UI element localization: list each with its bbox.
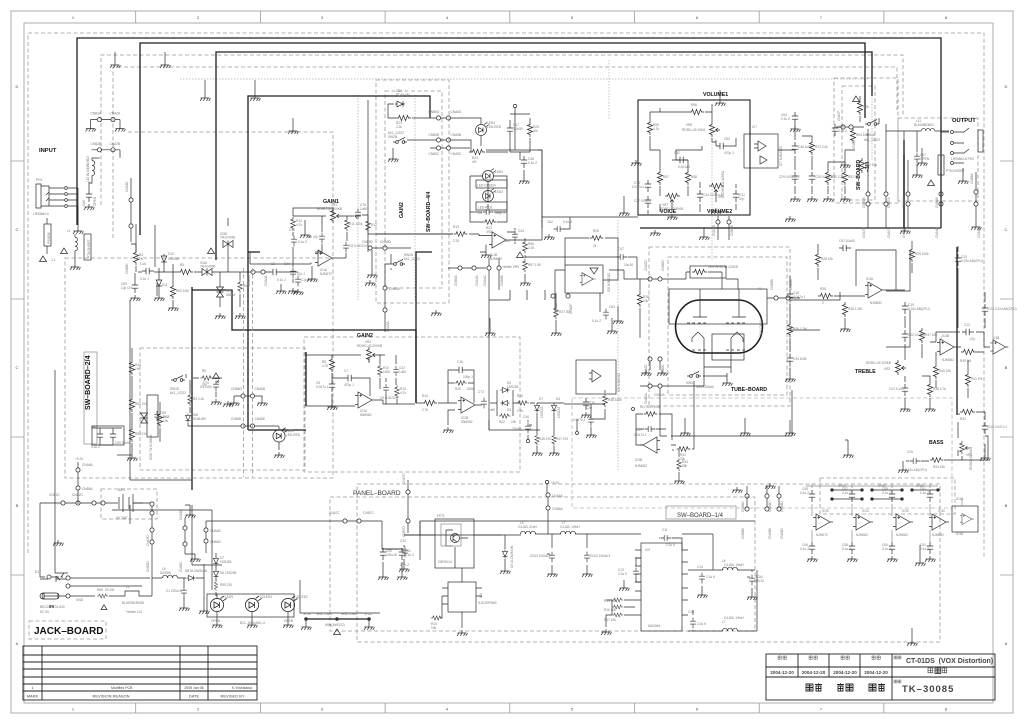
svg-text:RD18-6M: RD18-6M [192, 417, 206, 421]
svg-text:R62 1%: R62 1% [135, 402, 147, 406]
svg-text:4V_BAT: 4V_BAT [116, 516, 128, 520]
svg-text:0.1u Z: 0.1u Z [920, 491, 929, 495]
svg-text:0.1u Z: 0.1u Z [592, 319, 601, 323]
svg-text:RD18-6M: RD18-6M [396, 93, 410, 97]
svg-text:IC3B: IC3B [635, 458, 642, 462]
svg-text:C8 0.0022u F: C8 0.0022u F [349, 244, 368, 248]
svg-text:CNA6D: CNA6D [451, 110, 463, 114]
svg-text:SW–BOARD–2/4: SW–BOARD–2/4 [85, 355, 92, 410]
svg-text:CNA4B: CNA4B [935, 227, 939, 238]
svg-text:IC8 NJM2115: IC8 NJM2115 [617, 373, 621, 392]
svg-text:R29 100k: R29 100k [915, 252, 929, 256]
svg-text:IC4: IC4 [479, 593, 483, 598]
svg-text:D3: D3 [507, 408, 511, 412]
svg-text:CNB7B: CNB7B [862, 197, 866, 208]
svg-text:ZC04 100u6.3: ZC04 100u6.3 [590, 554, 610, 558]
svg-text:R38 4.7k: R38 4.7k [933, 387, 946, 391]
svg-text:OUTPUT: OUTPUT [952, 118, 976, 124]
svg-text:CNB2C: CNB2C [49, 493, 61, 497]
svg-text:C1 220u16: C1 220u16 [166, 589, 182, 593]
svg-text:CNB4B: CNB4B [935, 197, 939, 208]
svg-text:1u50: 1u50 [503, 239, 510, 243]
svg-text:IC7 NJM2120: IC7 NJM2120 [779, 146, 783, 166]
svg-text:1SS255: 1SS255 [507, 385, 519, 389]
svg-text:R67 1.5K: R67 1.5K [528, 263, 542, 267]
svg-text:VR3: VR3 [884, 367, 890, 371]
svg-text:CNB6C: CNB6C [125, 262, 129, 274]
svg-text:12p CH: 12p CH [121, 286, 133, 290]
svg-text:4%: 4% [533, 129, 538, 133]
svg-text:C47: C47 [618, 247, 624, 251]
svg-text:CNA6D: CNA6D [780, 527, 784, 539]
svg-text:R5: R5 [180, 263, 184, 267]
svg-text:R65: R65 [97, 588, 103, 592]
svg-text:OPEN: OPEN [920, 157, 930, 161]
svg-text:0.1u Z: 0.1u Z [800, 547, 809, 551]
svg-text:RD901-40 100KA: RD901-40 100KA [721, 170, 725, 196]
svg-text:VOLUME2: VOLUME2 [707, 209, 732, 215]
svg-text:C4-82L 22uH: C4-82L 22uH [518, 525, 538, 529]
svg-text:C47 10u50: C47 10u50 [839, 239, 855, 243]
svg-text:RD901-40 50KB: RD901-40 50KB [969, 447, 973, 470]
svg-text:NJM072: NJM072 [490, 257, 502, 261]
svg-text:CNA6B: CNA6B [255, 387, 266, 391]
svg-text:D1: D1 [35, 570, 39, 574]
svg-text:JP3B: JP3B [916, 484, 924, 488]
svg-text:PS9608: PS9608 [47, 232, 51, 244]
svg-text:JACK–BOARD: JACK–BOARD [34, 626, 103, 637]
svg-text:D: D [1005, 84, 1008, 89]
svg-text:0.1u Z: 0.1u Z [563, 220, 572, 224]
svg-text:PTN-SHORT: PTN-SHORT [946, 169, 965, 173]
svg-text:LR90664-6 PH2: LR90664-6 PH2 [951, 157, 974, 161]
svg-text:CNB4B: CNB4B [902, 197, 906, 208]
svg-text:0.047u J: 0.047u J [793, 295, 806, 299]
svg-text:CNA6C: CNA6C [125, 180, 129, 192]
svg-text:*delete L12: *delete L12 [126, 610, 142, 614]
svg-text:R56: R56 [691, 103, 697, 107]
svg-text:A: A [1005, 641, 1008, 646]
svg-text:0.1u Z: 0.1u Z [528, 161, 537, 165]
svg-text:R44: R44 [422, 394, 428, 398]
svg-text:CNA0D: CNA0D [644, 259, 648, 271]
svg-text:CNA7C: CNA7C [329, 511, 341, 515]
svg-text:0.1u J: 0.1u J [140, 277, 149, 281]
svg-text:59k: 59k [682, 464, 688, 468]
svg-text:OPEN: OPEN [284, 619, 294, 623]
svg-text:100u16: 100u16 [386, 553, 397, 557]
svg-text:PH1: PH1 [36, 178, 42, 182]
svg-text:D10: D10 [168, 252, 174, 256]
svg-text:CNB4B: CNB4B [730, 225, 734, 236]
svg-text:*delete VR9: *delete VR9 [502, 265, 519, 269]
svg-text:C36: C36 [589, 401, 595, 405]
svg-text:D7: D7 [539, 397, 543, 401]
svg-text:C50: C50 [724, 137, 730, 141]
svg-text:R26: R26 [863, 105, 869, 109]
svg-text:C43: C43 [518, 229, 524, 233]
svg-text:IC6 NJM2115: IC6 NJM2115 [607, 273, 611, 292]
svg-text:R30 1.2M: R30 1.2M [793, 327, 807, 331]
svg-text:C22: C22 [964, 323, 970, 327]
svg-text:R28 10k: R28 10k [821, 257, 833, 261]
svg-text:CNA0A: CNA0A [264, 274, 268, 286]
svg-text:R15 10k: R15 10k [604, 599, 616, 603]
svg-text:2004-12-20: 2004-12-20 [770, 670, 794, 675]
svg-text:INPUT: INPUT [39, 148, 57, 154]
svg-text:2.2u K: 2.2u K [706, 575, 716, 579]
svg-text:0.047u J: 0.047u J [632, 185, 645, 189]
svg-text:CNB2F: CNB2F [569, 303, 573, 314]
svg-text:GND: GND [76, 598, 84, 602]
svg-text:CNB6A: CNB6A [552, 507, 564, 511]
svg-text:CNB0B: CNB0B [500, 275, 504, 286]
svg-text:CNA7B: CNA7B [862, 227, 866, 238]
svg-text:R72 2.2k: R72 2.2k [815, 145, 828, 149]
svg-text:0.1u Z: 0.1u Z [838, 129, 847, 133]
svg-text:0.22u AB(CPU): 0.22u AB(CPU) [961, 259, 983, 263]
svg-text:C63: C63 [609, 305, 615, 309]
svg-text:MAX064: MAX064 [648, 624, 660, 628]
svg-text:CNA5B: CNA5B [451, 133, 462, 137]
svg-text:D11: D11 [162, 283, 168, 287]
svg-text:CNB7C: CNB7C [363, 511, 375, 515]
svg-text:CNB0E: CNB0E [231, 417, 242, 421]
svg-text:R39 1M: R39 1M [960, 359, 972, 363]
svg-text:33 1W: 33 1W [105, 588, 114, 592]
svg-text:C21 0.1u J: C21 0.1u J [889, 387, 905, 391]
svg-text:2k: 2k [593, 244, 597, 248]
svg-text:2.7k: 2.7k [453, 239, 459, 243]
svg-text:0.001u J: 0.001u J [678, 165, 691, 169]
svg-text:C: C [16, 365, 19, 370]
svg-text:JP1A: JP1A [364, 612, 372, 616]
svg-text:Wire(AWG22): Wire(AWG22) [325, 623, 345, 627]
svg-text:CNB2A: CNB2A [654, 393, 666, 397]
svg-text:NJM062: NJM062 [635, 464, 647, 468]
svg-text:0.047u J: 0.047u J [573, 418, 586, 422]
svg-text:CNB6G: CNB6G [231, 387, 243, 391]
svg-text:Modified PCB: Modified PCB [111, 686, 133, 690]
svg-text:JP2B: JP2B [878, 484, 886, 488]
svg-text:10k: 10k [163, 419, 169, 423]
svg-text:R53 10k: R53 10k [865, 163, 877, 167]
svg-text:TREBLE: TREBLE [855, 369, 876, 375]
svg-text:0.1u Z: 0.1u Z [882, 491, 891, 495]
svg-text:BASS: BASS [929, 440, 944, 446]
svg-text:CNA5C: CNA5C [451, 152, 463, 156]
svg-text:VOLUME1: VOLUME1 [703, 92, 728, 98]
svg-text:C4-82L 1/9uH: C4-82L 1/9uH [560, 525, 580, 529]
svg-text:SW–BOARD–1/4: SW–BOARD–1/4 [677, 513, 724, 519]
svg-text:22k: 22k [511, 420, 517, 424]
svg-text:C72: C72 [478, 390, 484, 394]
svg-text:GAIN2: GAIN2 [399, 202, 405, 218]
svg-text:50M062: 50M062 [360, 413, 372, 417]
svg-text:IC5E 74HC4066A: IC5E 74HC4066A [149, 434, 153, 460]
svg-text:BAT1: BAT1 [118, 488, 126, 492]
svg-text:Near CNB2: Near CNB2 [316, 612, 333, 616]
svg-text:DATE: DATE [189, 694, 200, 699]
svg-text:+9.2V: +9.2V [551, 481, 560, 485]
svg-text:CNB2D: CNB2D [146, 560, 150, 572]
svg-text:R57: R57 [663, 175, 669, 179]
svg-text:R22: R22 [499, 420, 505, 424]
svg-text:0.47u50: 0.47u50 [200, 385, 212, 389]
svg-text:OPEN: OPEN [93, 196, 97, 206]
svg-text:C: C [1005, 227, 1008, 232]
svg-text:2.2u K: 2.2u K [666, 543, 676, 547]
svg-text:1SS355: 1SS355 [220, 560, 232, 564]
svg-text:CNB0D: CNB0D [661, 259, 665, 271]
svg-text:2.2K: 2.2K [528, 246, 535, 250]
svg-text:R52 10k: R52 10k [848, 175, 860, 179]
svg-text:R20: R20 [455, 387, 461, 391]
svg-text:2.7k: 2.7k [422, 408, 428, 412]
svg-text:R31 100k: R31 100k [647, 405, 661, 409]
svg-text:1SS355: 1SS355 [168, 257, 180, 261]
svg-text:22u50: 22u50 [512, 427, 521, 431]
svg-text:C9 0.0022u F: C9 0.0022u F [380, 396, 399, 400]
svg-text:LR90664-6: LR90664-6 [33, 212, 49, 216]
svg-text:0.1u Z: 0.1u Z [920, 547, 929, 551]
svg-text:C17: C17 [636, 428, 642, 432]
svg-text:CNA6E: CNA6E [255, 417, 266, 421]
svg-text:C33: C33 [400, 539, 406, 543]
svg-text:CNB2B: CNB2B [91, 142, 102, 146]
svg-text:1u50: 1u50 [399, 370, 406, 374]
svg-text:C23 0.22u AB(CPU): C23 0.22u AB(CPU) [988, 307, 1017, 311]
svg-text:0.047u J: 0.047u J [316, 385, 329, 389]
svg-text:CNA3A: CNA3A [475, 274, 479, 286]
svg-text:1%: 1% [135, 367, 140, 371]
svg-text:D6 1SS255: D6 1SS255 [220, 571, 237, 575]
svg-text:CNB6C: CNB6C [741, 500, 745, 512]
svg-text:C59 22u50: C59 22u50 [115, 441, 131, 445]
svg-text:NJM072: NJM072 [320, 272, 332, 276]
svg-text:R63 1%: R63 1% [135, 432, 147, 436]
svg-text:C14: C14 [697, 565, 703, 569]
svg-text:2004-12-20: 2004-12-20 [802, 670, 826, 675]
svg-text:0: 0 [822, 301, 824, 305]
svg-text:ZC03 100u6.3: ZC03 100u6.3 [530, 554, 550, 558]
svg-text:C29 0.0022u F: C29 0.0022u F [779, 175, 800, 179]
svg-text:CNA0B: CNA0B [789, 279, 793, 290]
svg-text:RD901-40 50KB: RD901-40 50KB [660, 207, 683, 211]
svg-text:REVISED BY: REVISED BY [220, 694, 244, 699]
svg-text:IC2C: IC2C [862, 509, 870, 513]
svg-text:CNA0C: CNA0C [483, 274, 487, 286]
svg-text:C35 0.047u J: C35 0.047u J [988, 425, 1007, 429]
svg-text:2.2u K: 2.2u K [697, 622, 707, 626]
svg-text:CNA5D: CNA5D [380, 240, 392, 244]
svg-text:10k: 10k [431, 626, 437, 630]
svg-text:R12: R12 [371, 223, 377, 227]
svg-text:R13: R13 [453, 225, 459, 229]
svg-text:Y1: Y1 [758, 287, 762, 291]
svg-text:LED-RED: LED-RED [487, 125, 502, 129]
svg-text:FET1: FET1 [437, 514, 445, 518]
svg-text:L1: L1 [67, 229, 71, 233]
svg-text:CNA2D: CNA2D [146, 534, 150, 546]
svg-text:C4-82L 1/9uH: C4-82L 1/9uH [724, 616, 744, 620]
svg-text:0.1u Z: 0.1u Z [298, 240, 307, 244]
svg-text:10k: 10k [643, 299, 649, 303]
svg-text:C11: C11 [662, 528, 668, 532]
svg-text:NJM062: NJM062 [870, 301, 882, 305]
svg-text:2.2k: 2.2k [396, 125, 402, 129]
svg-text:CNB3A: CNB3A [454, 274, 458, 286]
svg-text:12AU7A(U): 12AU7A(U) [759, 320, 763, 336]
svg-text:1u50: 1u50 [360, 207, 367, 211]
svg-text:0.1u Z: 0.1u Z [842, 491, 851, 495]
svg-text:D4: D4 [556, 397, 560, 401]
svg-text:PTN-SHORT: PTN-SHORT [87, 239, 91, 258]
svg-text:L10 BLM18BD602: L10 BLM18BD602 [86, 156, 90, 182]
svg-text:R40 10k: R40 10k [939, 369, 951, 373]
svg-text:R46 470: R46 470 [539, 437, 551, 441]
svg-text:CNA7D: CNA7D [402, 472, 406, 484]
svg-text:2.2u K: 2.2u K [618, 572, 628, 576]
svg-text:D9 UI-DW344N: D9 UI-DW344N [510, 545, 514, 568]
svg-text:CNB6A: CNB6A [970, 172, 974, 184]
svg-text:CNB6B: CNB6B [741, 528, 745, 539]
svg-text:0.1u Z: 0.1u Z [882, 547, 891, 551]
svg-text:470p J: 470p J [344, 383, 354, 387]
svg-text:CNA4B: CNA4B [712, 225, 716, 236]
svg-text:SW3: SW3 [686, 381, 693, 385]
svg-text:CNA5A: CNA5A [386, 320, 390, 332]
svg-text:1u50: 1u50 [488, 408, 495, 412]
svg-text:0.22u AB(CPU): 0.22u AB(CPU) [908, 307, 930, 311]
svg-text:C32: C32 [674, 151, 680, 155]
svg-text:C66: C66 [82, 200, 86, 206]
svg-text:500k: 500k [467, 387, 474, 391]
svg-text:C25: C25 [907, 450, 913, 454]
svg-text:C34 100k: C34 100k [793, 357, 807, 361]
svg-text:CNA6A: CNA6A [552, 494, 564, 498]
svg-text:SW1A: SW1A [866, 133, 876, 137]
svg-text:0.1u J: 0.1u J [277, 278, 286, 282]
svg-text:470p J: 470p J [724, 151, 734, 155]
svg-text:PANEL–BOARD: PANEL–BOARD [353, 490, 401, 497]
svg-text:BLM18BD602: BLM18BD602 [914, 123, 934, 127]
svg-text:LED-RED: LED-RED [478, 206, 493, 210]
svg-text:74HC4066: 74HC4066 [220, 236, 235, 240]
svg-text:MARK: MARK [27, 694, 39, 699]
svg-text:47p: 47p [739, 197, 745, 201]
svg-text:47p J: 47p J [297, 272, 305, 276]
svg-text:IC9: IC9 [645, 548, 650, 552]
svg-text:0.1u Z: 0.1u Z [800, 491, 809, 495]
svg-text:2004-12-20: 2004-12-20 [833, 670, 857, 675]
svg-text:100p J: 100p J [463, 375, 473, 379]
svg-text:CT-01DS (VOX Distortion): CT-01DS (VOX Distortion) [906, 658, 993, 665]
svg-text:CNA6B: CNA6B [768, 528, 772, 539]
svg-text:0.1u Z: 0.1u Z [400, 563, 409, 567]
svg-text:IC4A: IC4A [956, 497, 964, 501]
svg-text:2.2k: 2.2k [517, 409, 523, 413]
svg-text:641_12222: 641_12222 [864, 138, 880, 142]
svg-text:C4-82L 1/9uH: C4-82L 1/9uH [724, 563, 744, 567]
svg-text:ZZLED4: ZZLED4 [260, 595, 272, 599]
svg-text:CNB6A: CNB6A [82, 487, 94, 491]
svg-text:R60 10M: R60 10M [176, 289, 189, 293]
svg-text:4.7k: 4.7k [653, 127, 659, 131]
svg-text:SW2B: SW2B [388, 135, 397, 139]
svg-text:L2: L2 [126, 585, 130, 589]
svg-text:BL02RN2R02B: BL02RN2R02B [122, 601, 144, 605]
svg-text:CNA2A: CNA2A [110, 112, 122, 116]
svg-text:LED0: LED0 [495, 170, 503, 174]
svg-text:VR9 RD901N 222KB: VR9 RD901N 222KB [708, 265, 738, 269]
svg-text:JP5A: JP5A [303, 612, 311, 616]
svg-text:CNB2A: CNB2A [91, 112, 103, 116]
svg-text:R58: R58 [691, 175, 697, 179]
svg-text:R35: R35 [820, 287, 826, 291]
svg-text:LED2: LED2 [495, 190, 503, 194]
svg-text:R45: R45 [517, 394, 523, 398]
svg-text:CNB7F: CNB7F [852, 138, 856, 149]
svg-text:NJM062: NJM062 [932, 533, 944, 537]
svg-text:2.2u50: 2.2u50 [513, 127, 523, 131]
svg-text:R26: R26 [593, 229, 599, 233]
svg-text:K.Yoshikawa: K.Yoshikawa [232, 686, 252, 690]
svg-text:C4: C4 [478, 211, 482, 215]
svg-text:C: C [16, 227, 19, 232]
svg-text:IC7: IC7 [752, 125, 757, 129]
svg-text:LED5: LED5 [225, 595, 233, 599]
svg-text:9V: 9V [49, 604, 55, 609]
svg-text:IC4B: IC4B [942, 334, 949, 338]
svg-text:4%: 4% [472, 160, 477, 164]
svg-text:4.7k: 4.7k [322, 364, 328, 368]
svg-text:1SS133: 1SS133 [540, 406, 544, 418]
svg-text:CNB0B: CNB0B [770, 279, 774, 290]
svg-text:LED-GREEN: LED-GREEN [477, 184, 496, 188]
svg-text:NJM062: NJM062 [942, 358, 954, 362]
svg-text:CNA7F: CNA7F [837, 110, 841, 121]
svg-text:NJM072: NJM072 [816, 533, 828, 537]
svg-text:TUBE–BOARD: TUBE–BOARD [731, 387, 767, 393]
svg-text:CNB5A: CNB5A [389, 287, 401, 291]
svg-text:C16: C16 [140, 262, 146, 266]
svg-text:C37 0.01u J: C37 0.01u J [634, 199, 652, 203]
svg-text:10u16: 10u16 [624, 263, 633, 267]
svg-text:R41 2%: R41 2% [971, 377, 983, 381]
svg-text:CN36C: CN36C [179, 561, 183, 572]
svg-text:ZZLED2: ZZLED2 [296, 595, 308, 599]
svg-text:74HC4066: 74HC4066 [200, 265, 215, 269]
svg-text:47u10: 47u10 [755, 579, 764, 583]
svg-text:641_12222: 641_12222 [170, 391, 186, 395]
svg-text:REVISION REASON: REVISION REASON [92, 694, 129, 699]
svg-text:R9: R9 [202, 369, 206, 373]
svg-text:CNA6A: CNA6A [82, 463, 94, 467]
svg-text:C16: C16 [457, 360, 463, 364]
svg-text:B: B [16, 503, 19, 508]
svg-text:A: A [16, 641, 19, 646]
svg-text:100k: 100k [383, 370, 390, 374]
svg-text:R11 100k: R11 100k [349, 222, 363, 226]
svg-text:LED-RED: LED-RED [286, 433, 301, 437]
svg-text:BCL-1508-ABC-4: BCL-1508-ABC-4 [240, 621, 265, 625]
svg-text:C10: C10 [289, 228, 295, 232]
svg-text:2005 Jan 06: 2005 Jan 06 [184, 686, 203, 690]
svg-text:C7: C7 [344, 369, 348, 373]
svg-text:R42: R42 [960, 417, 966, 421]
svg-text:IC3C: IC3C [902, 509, 910, 513]
